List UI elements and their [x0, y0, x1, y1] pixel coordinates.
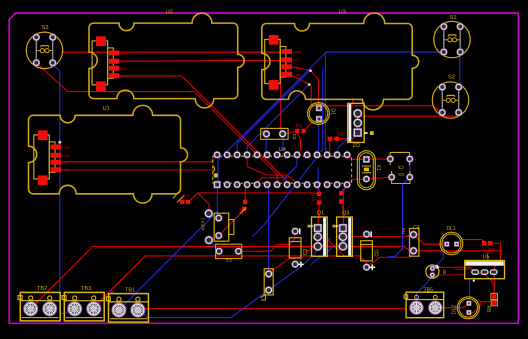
wire R2 to KEY1 diagonal: [219, 209, 244, 235]
svg-text:C0: C0: [374, 250, 380, 257]
transistor Q3: [333, 211, 353, 257]
resistor R5: [339, 191, 343, 204]
wire TB1 to TB5 rail: [138, 309, 405, 311]
capacitor C6: [388, 171, 413, 184]
terminal TB2: [18, 286, 60, 321]
svg-text:TB3: TB3: [81, 286, 91, 292]
svg-text:R9: R9: [401, 228, 406, 234]
wire C1 to C2 pad: [239, 233, 295, 251]
capacitor C2: [289, 228, 309, 268]
svg-text:VCC: VCC: [121, 60, 129, 64]
capacitor C0: [361, 231, 381, 271]
wire U4 to KEY1 vertical: [216, 186, 218, 218]
svg-text:VCC: VCC: [62, 154, 70, 158]
wire Q2 stub to U3: [352, 99, 354, 104]
wire VCC net U2 to U3: [120, 59, 282, 62]
IC U4: [213, 147, 352, 188]
svg-text:Q2: Q2: [353, 141, 360, 147]
wire TB3 rail to C0: [92, 256, 366, 309]
svg-text:VCC: VCC: [293, 59, 301, 63]
wire U4 pad28 to X1 to C6: [347, 177, 392, 184]
wire S1 to S2 vertical: [459, 53, 461, 88]
connector J2: [261, 269, 274, 300]
svg-text:SIG: SIG: [121, 67, 127, 71]
crystal X1: [357, 151, 380, 190]
svg-text:X1: X1: [375, 165, 381, 171]
wire U5 inner diagonal: [455, 269, 482, 274]
svg-text:CLK: CLK: [62, 169, 70, 173]
svg-text:U5: U5: [483, 254, 490, 260]
wire blue diag center b: [269, 238, 330, 290]
svg-text:Q3: Q3: [342, 211, 349, 217]
connector J-U3: [265, 35, 302, 90]
svg-text:SIG: SIG: [293, 66, 299, 70]
svg-text:KEY1: KEY1: [201, 217, 207, 230]
resistor R7: [482, 241, 494, 254]
pushbutton S3: [26, 25, 62, 69]
capacitor C3: [261, 128, 298, 140]
wire J3 to U5 lower: [435, 274, 465, 276]
wire blue v318: [317, 168, 319, 191]
svg-text:C4: C4: [413, 225, 420, 231]
via B: [308, 83, 311, 86]
svg-text:U3: U3: [339, 10, 346, 16]
terminal TB3: [62, 286, 104, 321]
svg-text:CLK: CLK: [293, 73, 301, 77]
regulator U5: [465, 254, 505, 281]
resistor R2: [237, 200, 247, 215]
wire C4 to DL1: [415, 237, 444, 245]
wire blue v297 drop: [284, 156, 297, 183]
wire U1 CLK stub: [59, 169, 215, 171]
wire U2 CLK to U4 pad6 diagonal: [120, 76, 288, 184]
via C: [58, 141, 61, 144]
pushbutton S2: [432, 74, 468, 118]
wire R7 to rail: [491, 243, 500, 251]
wire U1 SIG to U4 pad1: [59, 155, 217, 162]
wire TB1 to J2 bottom: [140, 290, 269, 318]
wire TB5 to DL2: [436, 304, 469, 308]
wire S3 to TB3 vertical: [53, 65, 73, 314]
svg-text:S3: S3: [42, 25, 49, 31]
connector J3: [426, 265, 447, 278]
wire R3 to C3: [285, 131, 297, 134]
header Q2: [348, 103, 374, 147]
svg-text:U2: U2: [166, 10, 173, 16]
svg-text:C2: C2: [303, 249, 309, 256]
wire Q2 pad2 to U4 pad12 blue: [337, 124, 358, 155]
svg-text:SIG: SIG: [62, 161, 68, 165]
svg-text:GND: GND: [121, 52, 129, 56]
wire blue vert x322: [321, 68, 323, 152]
svg-text:R8: R8: [485, 306, 491, 313]
wire S1 to U3 to KEY1 diagonal: [218, 52, 444, 186]
wire C3 pad2 blue stub: [282, 139, 284, 153]
LED DL1: [440, 226, 463, 255]
wire U5 to DL2 blue: [468, 280, 471, 302]
capacitor C5: [387, 152, 413, 169]
wire Q2 pad1 to S2: [359, 113, 461, 117]
wire blue diag center c: [311, 243, 338, 264]
via A: [309, 69, 312, 72]
svg-text:R3: R3: [296, 124, 303, 130]
wire C6 to C4 blue: [389, 160, 410, 257]
svg-text:C3: C3: [292, 134, 297, 140]
resistor R3: [295, 124, 306, 134]
svg-text:GND: GND: [293, 50, 301, 54]
svg-text:S2: S2: [448, 74, 455, 80]
resistor R1: [173, 191, 191, 204]
wire R4 top stub: [317, 186, 319, 192]
svg-text:Q1: Q1: [317, 211, 324, 217]
wire blue diag center a: [253, 155, 319, 236]
wire U4 between-row segment: [262, 177, 287, 179]
wire R1 to R4 net: [189, 193, 317, 201]
wire TB1 to KEY1 diagonal: [121, 211, 218, 308]
wire U3 CLK pad down to C3: [281, 77, 283, 132]
svg-text:J3: J3: [442, 269, 447, 274]
wire Q1 to Q3 diagonal: [327, 239, 352, 256]
svg-text:C6: C6: [398, 172, 404, 177]
wire R1 branch to KEY1: [198, 193, 209, 213]
wire via2 blue to U4 pad4: [247, 85, 309, 155]
module U1 outline: [29, 105, 188, 203]
svg-text:U1: U1: [103, 106, 110, 112]
wire TB5 to J3 blue: [417, 276, 433, 305]
terminal TB5: [404, 287, 444, 317]
svg-text:DL1: DL1: [447, 226, 456, 232]
connector J-U1: [34, 130, 71, 185]
diode D1: [308, 103, 336, 125]
switch KEY1: [201, 210, 234, 245]
wire U3 CLK diagonal via: [292, 75, 442, 112]
wire R3 to D1 pad2: [304, 119, 318, 130]
wire R5 to Q3: [342, 204, 344, 234]
terminal TB1: [106, 287, 148, 322]
wire R4 to Q1 pad1: [318, 204, 319, 226]
resistor R8: [485, 293, 498, 312]
wire U4 pad5 drop: [257, 178, 261, 184]
svg-text:DL2: DL2: [451, 305, 457, 314]
resistor R6: [328, 132, 345, 141]
pushbutton S1: [434, 15, 470, 58]
wire Q3 blue vertical: [343, 186, 347, 244]
svg-text:C5: C5: [397, 165, 403, 170]
wire U5 to R8: [483, 273, 494, 295]
LED DL2: [451, 297, 479, 319]
wire GND net S3 to U2 to U3: [62, 51, 281, 53]
svg-text:TB1: TB1: [125, 287, 135, 293]
svg-text:D1: D1: [330, 109, 336, 116]
wire D1 blue drop to U4 pad11: [317, 123, 318, 155]
wire C0 to C4 feed: [369, 251, 414, 265]
wire KEY1 to C1 stub: [209, 241, 218, 251]
wire Q3 pad2 to C4: [347, 235, 413, 237]
wire R5 top stub: [341, 186, 347, 192]
svg-text:TB5: TB5: [424, 287, 434, 293]
module U2 outline: [89, 13, 244, 108]
wire U4 to J2 vertical: [267, 186, 268, 271]
wire U3 SIG diagonal to D1: [292, 67, 319, 106]
wire blue vert x326: [325, 52, 327, 154]
wire DL1 to R7: [458, 240, 484, 243]
wire R7 into U5: [487, 253, 489, 262]
svg-text:CLK: CLK: [121, 75, 129, 79]
svg-text:R4: R4: [310, 195, 316, 202]
svg-text:U4: U4: [279, 147, 287, 153]
module U3 outline: [262, 13, 419, 110]
wire R3 drop to U4 pad9: [297, 133, 300, 154]
svg-text:S1: S1: [450, 15, 457, 21]
svg-text:GND: GND: [62, 146, 70, 150]
wire U4 pad4 staircase: [247, 156, 297, 184]
wire via1 blue to U4 pad3: [237, 70, 310, 154]
wire U4 pad14 to X1 to C5: [347, 155, 390, 160]
wire DL1 area to J3 blue: [433, 232, 444, 269]
connector J-U2: [92, 36, 129, 91]
wire J2 pad to rail diagonal: [269, 259, 295, 273]
svg-text:R6: R6: [337, 132, 344, 138]
wire R2 top to U4: [245, 186, 247, 199]
svg-text:R1: R1: [183, 194, 190, 200]
capacitor C4: [401, 225, 420, 256]
svg-text:C1: C1: [225, 257, 231, 263]
wire S3 to U4 pad7 diagonal: [37, 63, 277, 184]
wire R6 to U4 pad12: [327, 140, 329, 155]
capacitor C1: [216, 244, 242, 263]
wire J3 to U5 pad1: [435, 267, 474, 270]
wire R6 to Q2 pad3: [331, 134, 358, 139]
wire C3 pad1 blue stub: [265, 139, 267, 153]
wire TB2 to long rail: [31, 247, 501, 309]
wire C2 plus diagonal: [296, 258, 302, 264]
wire R8 to DL2: [470, 302, 491, 313]
wire TB3 stub diagonal: [92, 291, 113, 309]
svg-text:TB2: TB2: [37, 286, 47, 292]
transistor Q1: [308, 211, 328, 257]
wire Q1 emitter diagonal: [305, 246, 317, 252]
resistor R4: [310, 192, 322, 205]
